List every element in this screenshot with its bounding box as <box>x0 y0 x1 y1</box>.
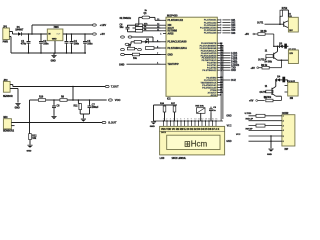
svg-text:ISP: ISP <box>285 149 289 151</box>
svg-text:7: 7 <box>184 119 185 121</box>
svg-text:RXD: RXD <box>231 70 236 72</box>
svg-text:VCC: VCC <box>115 98 121 102</box>
svg-text:6: 6 <box>180 119 181 121</box>
svg-text:10u: 10u <box>133 58 138 60</box>
svg-text:P1.6/TA1/A6: P1.6/TA1/A6 <box>204 32 217 35</box>
svg-text:S.OUT: S.OUT <box>108 121 117 125</box>
svg-text:32.768kHz: 32.768kHz <box>120 17 132 20</box>
svg-text:R10: R10 <box>39 96 44 98</box>
svg-text:12: 12 <box>201 119 203 121</box>
svg-text:P2.1/TAINCLK/OA: P2.1/TAINCLK/OA <box>168 47 188 50</box>
svg-text:GND: GND <box>168 54 173 56</box>
svg-text:100u: 100u <box>87 44 93 46</box>
svg-text:16X2 LM016L: 16X2 LM016L <box>172 158 187 160</box>
svg-text:11: 11 <box>198 119 200 121</box>
svg-text:10: 10 <box>194 119 196 121</box>
svg-text:P4.3/TB0/A12: P4.3/TB0/A12 <box>202 69 217 72</box>
svg-text:R11: R11 <box>74 106 79 108</box>
svg-text:T.OUT: T.OUT <box>111 85 119 89</box>
svg-text:TEST/VPP: TEST/VPP <box>168 64 180 66</box>
svg-text:GND: GND <box>226 116 231 118</box>
svg-text:U.TXD: U.TXD <box>245 113 252 115</box>
svg-text:100n: 100n <box>74 44 80 46</box>
svg-text:7805: 7805 <box>54 27 60 29</box>
svg-text:P1.1/TA0/A1: P1.1/TA0/A1 <box>204 19 217 22</box>
svg-text:2: 2 <box>166 119 167 121</box>
svg-text:PWR: PWR <box>3 41 9 43</box>
svg-text:3: 3 <box>170 119 171 121</box>
svg-text:R15 10k: R15 10k <box>195 106 204 108</box>
svg-text:P1.3/TA2/A3: P1.3/TA2/A3 <box>204 24 217 27</box>
svg-text:R9 5k: R9 5k <box>261 65 268 67</box>
svg-text:+5V: +5V <box>100 32 105 36</box>
svg-text:10u: 10u <box>120 27 125 29</box>
svg-text:R8 5k: R8 5k <box>261 31 268 33</box>
svg-text:1N4007: 1N4007 <box>15 28 24 31</box>
svg-text:16X2: 16X2 <box>161 132 167 134</box>
svg-text:SENSOR: SENSOR <box>3 96 13 98</box>
svg-text:P1.5/TA0/A5: P1.5/TA0/A5 <box>204 29 217 32</box>
svg-text:S04: S04 <box>231 27 236 30</box>
svg-text:P2.0/ACLK/OA0I0: P2.0/ACLK/OA0I0 <box>168 41 188 44</box>
svg-text:16: 16 <box>215 119 217 121</box>
svg-text:RXD.1P: RXD.1P <box>246 119 254 121</box>
svg-text:LCD: LCD <box>160 158 165 160</box>
svg-text:GND: GND <box>267 154 272 156</box>
svg-text:1: 1 <box>163 119 164 121</box>
svg-text:SENSOR2: SENSOR2 <box>3 131 15 133</box>
svg-text:R4 50k: R4 50k <box>265 61 273 64</box>
svg-text:P1.4/SMCLK/A4: P1.4/SMCLK/A4 <box>200 27 217 30</box>
svg-text:GND: GND <box>52 38 57 40</box>
svg-text:GND: GND <box>51 61 56 63</box>
svg-text:+5V: +5V <box>245 33 250 36</box>
svg-text:P1.2/TA1/A2: P1.2/TA1/A2 <box>204 21 217 24</box>
svg-text:13: 13 <box>205 119 207 121</box>
svg-text:100n: 100n <box>43 44 49 46</box>
svg-text:GND: GND <box>226 141 231 143</box>
svg-text:5: 5 <box>177 119 178 121</box>
svg-text:RST.1P: RST.1P <box>246 129 254 131</box>
svg-text:S06: S06 <box>231 33 236 35</box>
svg-text:VCC: VCC <box>227 126 232 128</box>
svg-text:BUZ: BUZ <box>231 80 236 82</box>
svg-text:RST/NMI: RST/NMI <box>168 31 178 33</box>
svg-text:4: 4 <box>173 119 174 121</box>
svg-text:14: 14 <box>208 119 210 121</box>
svg-text:GND: GND <box>119 63 125 66</box>
svg-text:P1.0/TA0CLK2: P1.0/TA0CLK2 <box>168 19 184 22</box>
svg-text:+5V: +5V <box>251 67 256 70</box>
svg-text:GND: GND <box>15 107 20 109</box>
svg-text:XIN: XIN <box>168 25 172 27</box>
svg-text:GND: GND <box>27 150 32 152</box>
svg-text:VCC: VCC <box>236 134 241 136</box>
svg-text:MSP430: MSP430 <box>167 13 178 17</box>
svg-text:OUT: OUT <box>56 33 61 35</box>
svg-text:9: 9 <box>191 119 192 121</box>
svg-text:2M: 2M <box>290 98 293 100</box>
svg-text:+12V: +12V <box>100 23 107 27</box>
svg-text:+5V: +5V <box>249 100 254 103</box>
svg-text:OUT1: OUT1 <box>257 21 264 24</box>
svg-text:100uF: 100uF <box>92 107 99 109</box>
svg-text:15: 15 <box>212 119 214 121</box>
svg-text:XOUT: XOUT <box>168 28 175 30</box>
svg-text:AVSS: AVSS <box>211 94 217 97</box>
svg-text:AVSS: AVSS <box>168 33 175 36</box>
svg-text:GND: GND <box>150 126 155 128</box>
svg-text:VSS VDD VO RS RW E D0 D1 D2 D3: VSS VDD VO RS RW E D0 D1 D2 D3 D4 D5 D6 … <box>161 128 220 131</box>
svg-text:470u: 470u <box>21 43 27 46</box>
svg-text:8: 8 <box>187 119 188 121</box>
svg-text:⊞Hcm: ⊞Hcm <box>184 140 207 149</box>
